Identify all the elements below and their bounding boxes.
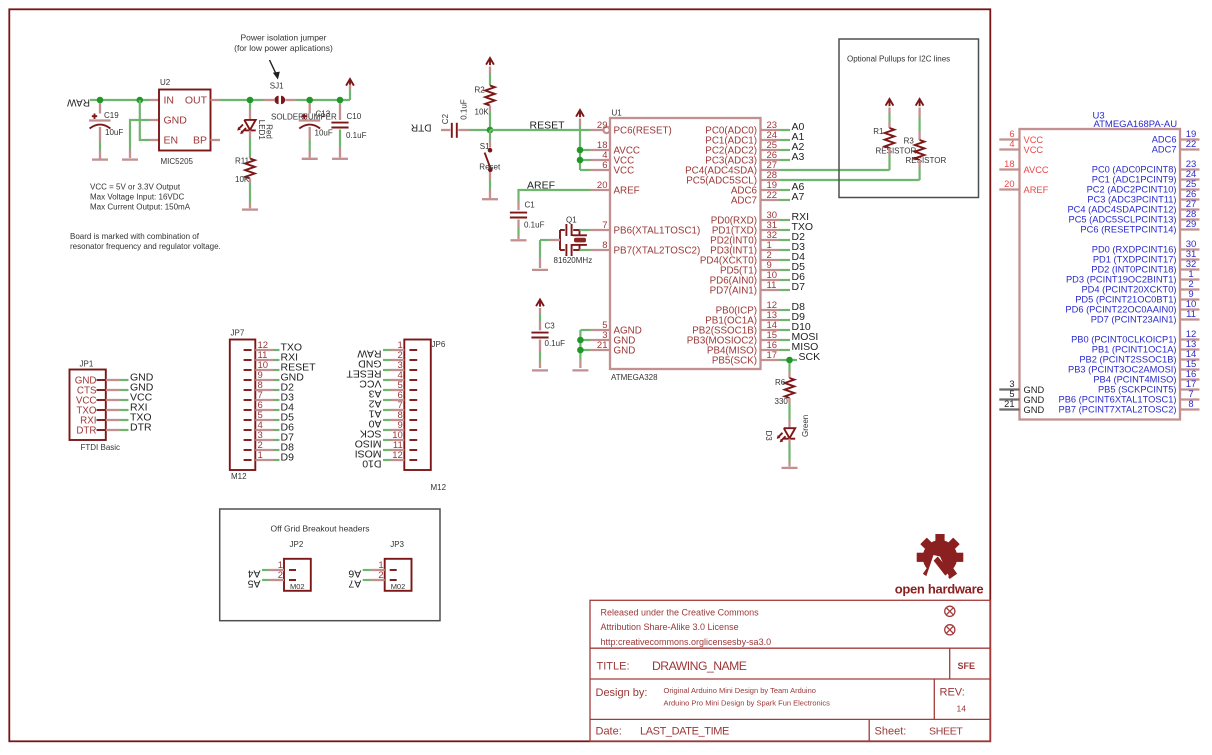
resistor R3 bbox=[915, 140, 925, 160]
solder jumper SJ1 bbox=[274, 96, 278, 104]
pin 7 PB6(XTAL1TOSC1) U1 bbox=[591, 229, 611, 231]
pin 31 PD1(TXD) U1 bbox=[761, 229, 780, 231]
pin 1 JP6 bbox=[409, 349, 417, 351]
svg-text:Sheet:: Sheet: bbox=[875, 726, 907, 738]
svg-text:SCK: SCK bbox=[799, 351, 821, 363]
switch S1 reset bbox=[489, 130, 491, 141]
pin 14 PB2(SSOC1B) U1 bbox=[761, 329, 780, 331]
svg-text:JP1: JP1 bbox=[80, 360, 94, 369]
ground under R11 bbox=[242, 208, 258, 210]
svg-text:VCC = 5V or 3.3V Output: VCC = 5V or 3.3V Output bbox=[90, 183, 181, 192]
svg-text:21: 21 bbox=[1004, 399, 1014, 409]
svg-text:R2: R2 bbox=[475, 86, 486, 95]
pin 25 PC2 (ADC2PCINT10) U3 bbox=[1180, 188, 1200, 190]
pin 32 PD2(INT0) U1 bbox=[761, 239, 780, 241]
svg-text:6: 6 bbox=[602, 160, 607, 171]
resistor R11 bbox=[245, 159, 255, 179]
pin 4 VCC U1 bbox=[591, 159, 611, 161]
pin 7 PB6 (PCINT6XTAL1TOSC1) U3 bbox=[1180, 398, 1200, 400]
junction at C13 bbox=[306, 97, 313, 104]
svg-text:PD1 (TXDPCINT17): PD1 (TXDPCINT17) bbox=[1093, 255, 1177, 265]
ground under C13 bbox=[302, 158, 318, 160]
svg-text:0.1uF: 0.1uF bbox=[524, 221, 545, 230]
svg-text:PD4 (PCINT20XCKT0): PD4 (PCINT20XCKT0) bbox=[1081, 285, 1176, 295]
pin EN U2 bbox=[150, 139, 160, 141]
pin 25 PC2(ADC2) U1 bbox=[761, 149, 780, 151]
svg-text:Green: Green bbox=[801, 415, 810, 437]
wire Q1 ground tap bbox=[550, 239, 561, 241]
pin 8 JP7 bbox=[244, 389, 252, 391]
junction VCC bbox=[577, 157, 584, 164]
pin 5 AGND U1 bbox=[591, 329, 611, 331]
svg-text:PD0 (RXDPCINT16): PD0 (RXDPCINT16) bbox=[1092, 245, 1177, 255]
svg-text:OUT: OUT bbox=[185, 95, 208, 107]
pin 7 wire XTAL1 bbox=[580, 229, 591, 231]
pin 27 PC4(ADC4SDA) U1 bbox=[761, 169, 780, 171]
pin 26 PC3(ADC3) U1 bbox=[761, 159, 780, 161]
icon circle-x 2 bbox=[945, 625, 955, 635]
svg-text:AVCC: AVCC bbox=[1024, 165, 1049, 175]
pin 9 JP7 bbox=[244, 379, 252, 381]
ground under S1 bbox=[482, 198, 498, 200]
supply VCC arrow at AVCC bbox=[576, 110, 584, 117]
svg-text:20: 20 bbox=[597, 180, 608, 191]
pin 9 PD5 (PCINT21OC0BT1) U3 bbox=[1180, 298, 1200, 300]
svg-text:ADC7: ADC7 bbox=[1152, 145, 1177, 155]
svg-text:JP3: JP3 bbox=[390, 540, 404, 549]
pin 1 JP7 bbox=[244, 459, 252, 461]
svg-text:Red: Red bbox=[264, 124, 273, 139]
svg-text:Q1: Q1 bbox=[566, 216, 577, 225]
svg-text:PB6(XTAL1TOSC1): PB6(XTAL1TOSC1) bbox=[614, 226, 701, 237]
pin 9 PD5(T1) U1 bbox=[761, 269, 780, 271]
svg-text:AREF: AREF bbox=[614, 186, 640, 197]
box off grid breakout bbox=[220, 509, 440, 621]
pin 11 PD7 (PCINT23AIN1) U3 bbox=[1180, 318, 1200, 320]
supply VCC arrow at R3 bbox=[916, 99, 924, 106]
svg-text:PC6(RESET): PC6(RESET) bbox=[614, 126, 672, 137]
pin 1 PD3(INT1) U1 bbox=[761, 249, 780, 251]
pin 20 AREF U1 bbox=[591, 189, 611, 191]
svg-text:SHEET: SHEET bbox=[929, 726, 963, 738]
svg-text:C19: C19 bbox=[104, 111, 119, 120]
pin 10 PD6 (PCINT22OC0AAIN0) U3 bbox=[1180, 308, 1200, 310]
pin 11 JP7 bbox=[244, 359, 252, 361]
resistor R1 bbox=[885, 128, 895, 148]
pin 2 JP7 bbox=[244, 449, 252, 451]
svg-text:D3: D3 bbox=[764, 431, 773, 442]
svg-text:14: 14 bbox=[957, 704, 967, 714]
svg-text:8: 8 bbox=[602, 240, 607, 251]
pin 17 PB5 (SCKPCINT5) U3 bbox=[1180, 388, 1200, 390]
svg-text:Reset: Reset bbox=[479, 163, 501, 172]
svg-text:D7: D7 bbox=[792, 281, 806, 293]
svg-text:LAST_DATE_TIME: LAST_DATE_TIME bbox=[640, 726, 729, 738]
svg-text:GND: GND bbox=[1024, 405, 1045, 415]
svg-text:TITLE:: TITLE: bbox=[597, 661, 630, 673]
pin 12 PB0 (PCINT0CLKOICP1) U3 bbox=[1180, 338, 1200, 340]
pin 16 PB4(MISO) U1 bbox=[761, 349, 780, 351]
connector JP7 M12 bbox=[230, 340, 256, 471]
svg-text:Off Grid Breakout headers: Off Grid Breakout headers bbox=[271, 524, 370, 534]
pin 27 PC4 (ADC4SDAPCINT12) U3 bbox=[1180, 208, 1200, 210]
svg-text:C1: C1 bbox=[525, 200, 536, 209]
svg-text:10K: 10K bbox=[475, 108, 490, 117]
svg-text:20: 20 bbox=[1004, 179, 1014, 189]
junction at C10 bbox=[337, 97, 344, 104]
svg-text:DTR: DTR bbox=[76, 426, 96, 437]
junction at LED1 bbox=[247, 97, 254, 104]
svg-text:C3: C3 bbox=[545, 322, 556, 331]
svg-text:Max Current Output: 150mA: Max Current Output: 150mA bbox=[90, 203, 191, 212]
svg-text:Original Arduino Mini Design b: Original Arduino Mini Design by Team Ard… bbox=[664, 686, 816, 695]
pin 12 PB0(ICP) U1 bbox=[761, 309, 780, 311]
pin 3 GND U3 bbox=[999, 388, 1019, 390]
pin 28 PC5 (ADC5SCLPCINT13) U3 bbox=[1180, 218, 1200, 220]
supply VCC arrow at C10 bbox=[346, 79, 354, 86]
pin 5 GND U3 bbox=[999, 398, 1019, 400]
icon circle-x 1 bbox=[945, 606, 955, 616]
pin 15 PB3(MOSIOC2) U1 bbox=[761, 339, 780, 341]
svg-text:PB6 (PCINT6XTAL1TOSC1): PB6 (PCINT6XTAL1TOSC1) bbox=[1059, 395, 1177, 405]
svg-text:AREF: AREF bbox=[527, 180, 555, 192]
pin 19 ADC6 U1 bbox=[761, 189, 780, 191]
svg-text:S1: S1 bbox=[480, 142, 490, 151]
svg-text:10uF: 10uF bbox=[315, 129, 333, 138]
pin 4 VCC U3 bbox=[999, 148, 1019, 150]
svg-text:AREF: AREF bbox=[1024, 185, 1049, 195]
pin 18 AVCC U1 bbox=[591, 149, 611, 151]
junction at C19 bbox=[97, 97, 104, 104]
pin 4 JP7 bbox=[244, 429, 252, 431]
pin 2 JP6 bbox=[409, 359, 417, 361]
svg-text:PB2 (PCINT2SSOC1B): PB2 (PCINT2SSOC1B) bbox=[1079, 355, 1176, 365]
pin 21 GND U3 bbox=[999, 408, 1019, 410]
svg-text:R3: R3 bbox=[904, 137, 915, 146]
svg-text:JP2: JP2 bbox=[290, 540, 304, 549]
svg-text:0.1uF: 0.1uF bbox=[545, 339, 566, 348]
svg-text:DTR: DTR bbox=[130, 421, 152, 433]
pin 10 PD6(AIN0) U1 bbox=[761, 279, 780, 281]
svg-text:Arduino Pro Mini Design by Spa: Arduino Pro Mini Design by Spark Fun Ele… bbox=[664, 699, 831, 708]
svg-text:18: 18 bbox=[1004, 159, 1014, 169]
pin 18 AVCC U3 bbox=[999, 168, 1019, 170]
svg-text:22: 22 bbox=[767, 190, 778, 201]
svg-text:PC5 (ADC5SCLPCINT13): PC5 (ADC5SCLPCINT13) bbox=[1069, 215, 1177, 225]
ground under C3 bbox=[532, 369, 548, 371]
resistor R6 bbox=[788, 363, 790, 371]
pin 1 PD3 (PCINT19OC2BINT1) U3 bbox=[1180, 278, 1200, 280]
svg-text:ATMEGA168PA-AU: ATMEGA168PA-AU bbox=[1094, 119, 1178, 130]
svg-text:ADC7: ADC7 bbox=[731, 196, 757, 207]
svg-text:C2: C2 bbox=[441, 113, 450, 124]
svg-text:6: 6 bbox=[1009, 129, 1014, 139]
svg-text:A7: A7 bbox=[792, 191, 805, 203]
svg-text:M12: M12 bbox=[431, 483, 447, 492]
svg-text:http:creativecommons.orglicens: http:creativecommons.orglicensesby-sa3.0 bbox=[601, 637, 772, 647]
pin 1 JP2 bbox=[289, 569, 296, 571]
svg-text:VCC: VCC bbox=[1024, 145, 1044, 155]
svg-text:DTR: DTR bbox=[411, 122, 432, 133]
svg-text:ADC6: ADC6 bbox=[1152, 135, 1177, 145]
junction GND3 bbox=[577, 337, 584, 344]
pin 8 wire XTAL2 bbox=[580, 249, 591, 251]
svg-text:Released under the Creative Co: Released under the Creative Commons bbox=[601, 608, 760, 618]
svg-text:Max Voltage Input: 16VDC: Max Voltage Input: 16VDC bbox=[90, 193, 185, 202]
svg-text:29: 29 bbox=[597, 120, 608, 131]
IC U3 ATMEGA168PA-AU bbox=[1020, 129, 1181, 420]
svg-text:Attribution Share-Alike 3.0 Li: Attribution Share-Alike 3.0 License bbox=[601, 622, 739, 632]
svg-text:resonator frequency and regula: resonator frequency and regulator voltag… bbox=[70, 242, 221, 251]
pin 22 ADC7 U3 bbox=[1180, 148, 1200, 150]
svg-text:A7: A7 bbox=[348, 577, 361, 589]
ground under C19 bbox=[92, 158, 108, 160]
ground under C10 bbox=[332, 158, 348, 160]
svg-text:10K: 10K bbox=[235, 175, 250, 184]
svg-text:A5: A5 bbox=[247, 577, 260, 589]
svg-text:GND: GND bbox=[614, 346, 636, 357]
svg-text:JP6: JP6 bbox=[432, 340, 446, 349]
svg-text:PC4 (ADC4SDAPCINT12): PC4 (ADC4SDAPCINT12) bbox=[1067, 205, 1176, 215]
svg-text:A3: A3 bbox=[792, 151, 805, 163]
pin 29 PC6 (RESETPCINT14) U3 bbox=[1180, 228, 1200, 230]
junction SCK bbox=[786, 357, 793, 364]
wire SCK bbox=[780, 359, 798, 361]
svg-text:R11: R11 bbox=[235, 157, 250, 166]
svg-text:U2: U2 bbox=[160, 78, 171, 87]
box optional pullups bbox=[839, 39, 979, 198]
svg-text:11: 11 bbox=[767, 280, 777, 291]
svg-text:5: 5 bbox=[1009, 389, 1014, 399]
pin 24 PC1(ADC1) U1 bbox=[761, 139, 780, 141]
pin 26 PC3 (ADC3PCINT11) U3 bbox=[1180, 198, 1200, 200]
svg-text:M02: M02 bbox=[391, 582, 406, 591]
resistor R2 bbox=[485, 86, 495, 106]
pin 2 JP2 bbox=[289, 579, 296, 581]
pin SJ1 right bbox=[286, 99, 297, 101]
pin 8 JP6 bbox=[409, 419, 417, 421]
svg-text:PB7 (PCINT7XTAL2TOSC2): PB7 (PCINT7XTAL2TOSC2) bbox=[1059, 405, 1177, 415]
supply VCC arrow at R1 bbox=[886, 99, 894, 106]
pin 9 JP6 bbox=[409, 429, 417, 431]
connector JP1 FTDI bbox=[70, 370, 106, 441]
svg-text:PC6 (RESETPCINT14): PC6 (RESETPCINT14) bbox=[1080, 225, 1176, 235]
wire AGND GND bbox=[579, 330, 581, 359]
svg-text:PB7(XTAL2TOSC2): PB7(XTAL2TOSC2) bbox=[614, 246, 701, 257]
junction at EN branch bbox=[137, 97, 144, 104]
wire SDA to R1 bbox=[780, 169, 890, 171]
svg-text:(for low power aplications): (for low power aplications) bbox=[234, 43, 333, 53]
svg-text:8: 8 bbox=[1188, 399, 1193, 410]
svg-text:D10: D10 bbox=[362, 457, 381, 469]
svg-text:4: 4 bbox=[1009, 139, 1014, 149]
svg-text:ATMEGA328: ATMEGA328 bbox=[611, 373, 658, 382]
svg-text:PC3 (ADC3PCINT11): PC3 (ADC3PCINT11) bbox=[1087, 195, 1176, 205]
svg-text:17: 17 bbox=[767, 350, 778, 361]
IC U1 ATMEGA328 bbox=[610, 118, 761, 369]
ground under C1 bbox=[511, 239, 527, 241]
svg-text:PC1 (ADC1PCINT9): PC1 (ADC1PCINT9) bbox=[1092, 175, 1177, 185]
junction RESET bbox=[487, 127, 494, 134]
svg-text:DRAWING_NAME: DRAWING_NAME bbox=[652, 659, 747, 673]
svg-text:IN: IN bbox=[164, 95, 175, 107]
svg-text:3: 3 bbox=[1009, 379, 1014, 389]
svg-text:PD7 (PCINT23AIN1): PD7 (PCINT23AIN1) bbox=[1091, 315, 1177, 325]
pin 20 AREF U3 bbox=[999, 188, 1019, 190]
capacitor C1 bbox=[517, 202, 519, 210]
pin 8 PB7(XTAL2TOSC2) U1 bbox=[591, 249, 611, 251]
voltage regulator U2 MIC5205 bbox=[159, 90, 211, 151]
capacitor C2 bbox=[441, 129, 450, 131]
svg-text:U1: U1 bbox=[612, 109, 623, 118]
svg-text:0.1uF: 0.1uF bbox=[460, 99, 469, 120]
wire RESET bbox=[490, 129, 591, 131]
pin 6 VCC U3 bbox=[999, 138, 1019, 140]
pin 2 PD4(XCKT0) U1 bbox=[761, 259, 780, 261]
pin 14 PB2 (PCINT2SSOC1B) U3 bbox=[1180, 358, 1200, 360]
LED LED1 red bbox=[249, 103, 251, 110]
svg-text:PB1 (PCINT1OC1A): PB1 (PCINT1OC1A) bbox=[1092, 345, 1177, 355]
pin 1 JP3 bbox=[390, 569, 397, 571]
svg-text:PD6 (PCINT22OC0AAIN0): PD6 (PCINT22OC0AAIN0) bbox=[1065, 305, 1176, 315]
svg-text:11: 11 bbox=[1186, 309, 1196, 320]
svg-text:GND: GND bbox=[164, 115, 188, 127]
svg-text:SJ1: SJ1 bbox=[270, 82, 284, 91]
svg-text:SFE: SFE bbox=[958, 661, 976, 671]
resonator Q1 bbox=[559, 230, 561, 250]
svg-text:C10: C10 bbox=[347, 112, 362, 121]
svg-text:GND: GND bbox=[1024, 385, 1045, 395]
pin 21 GND U1 bbox=[591, 349, 611, 351]
pin GND U2 bbox=[150, 119, 160, 121]
pin 3 GND U1 bbox=[591, 339, 611, 341]
capacitor C19 bbox=[99, 103, 101, 114]
pin 16 PB4 (PCINT4MISO) U3 bbox=[1180, 378, 1200, 380]
svg-text:Date:: Date: bbox=[596, 726, 622, 738]
capacitor C10 bbox=[339, 103, 341, 120]
LED D3 green bbox=[784, 428, 795, 438]
ground under U2 GND bbox=[122, 158, 138, 160]
svg-text:29: 29 bbox=[1186, 219, 1197, 230]
ground under Q1 bbox=[532, 269, 548, 271]
pin 22 ADC7 U1 bbox=[761, 199, 780, 201]
svg-text:R6: R6 bbox=[775, 378, 786, 387]
pin 23 PC0 (ADC0PCINT8) U3 bbox=[1180, 168, 1200, 170]
svg-text:RESET: RESET bbox=[530, 120, 566, 132]
pin 11 PD7(AIN1) U1 bbox=[761, 289, 780, 291]
svg-text:RAW: RAW bbox=[66, 97, 90, 108]
wire VCC rail bbox=[220, 99, 264, 101]
pin 7 JP6 bbox=[409, 409, 417, 411]
pin BP U2 bbox=[211, 139, 221, 141]
svg-text:Power isolation jumper: Power isolation jumper bbox=[241, 33, 327, 43]
annotation arrow to SJ1 bbox=[270, 60, 278, 77]
junction AVCC bbox=[577, 147, 584, 154]
pin 8 PB7 (PCINT7XTAL2TOSC2) U3 bbox=[1180, 408, 1200, 410]
pin OUT U2 bbox=[211, 99, 221, 101]
pin 6 VCC U1 bbox=[591, 169, 611, 171]
svg-text:22: 22 bbox=[1186, 139, 1197, 150]
capacitor C3 bbox=[531, 332, 548, 334]
svg-text:M02: M02 bbox=[290, 582, 305, 591]
pin 15 PB3 (PCINT3OC2AMOSI) U3 bbox=[1180, 368, 1200, 370]
svg-text:Design by:: Design by: bbox=[596, 687, 648, 699]
svg-text:PD5 (PCINT21OC0BT1): PD5 (PCINT21OC0BT1) bbox=[1075, 295, 1176, 305]
pin IN U2 bbox=[150, 99, 159, 101]
supply VCC arrow at C3 bbox=[536, 300, 544, 307]
svg-text:RESISTOR: RESISTOR bbox=[876, 147, 917, 156]
pin 23 PC0(ADC0) U1 bbox=[761, 129, 780, 131]
pin 10 JP6 bbox=[409, 439, 417, 441]
svg-text:PB5(SCK): PB5(SCK) bbox=[712, 356, 757, 367]
svg-text:VCC: VCC bbox=[614, 166, 635, 177]
capacitor C13 bbox=[309, 103, 311, 114]
pin 4 JP6 bbox=[409, 379, 417, 381]
svg-text:7: 7 bbox=[602, 220, 607, 231]
svg-text:BP: BP bbox=[193, 135, 207, 147]
wire AVCC VCC bbox=[579, 126, 581, 170]
wire RAW rail bbox=[90, 99, 151, 101]
pin 31 PD1 (TXDPCINT17) U3 bbox=[1180, 258, 1200, 260]
pin 6 JP7 bbox=[244, 409, 252, 411]
svg-text:REV:: REV: bbox=[940, 687, 965, 699]
svg-text:PB3 (PCINT3OC2AMOSI): PB3 (PCINT3OC2AMOSI) bbox=[1068, 365, 1177, 375]
pin 5 JP6 bbox=[409, 389, 417, 391]
svg-text:21: 21 bbox=[597, 340, 608, 351]
pin 10 JP7 bbox=[244, 369, 252, 371]
pin 13 PB1 (PCINT1OC1A) U3 bbox=[1180, 348, 1200, 350]
pin SJ1 left bbox=[264, 99, 274, 101]
svg-text:EN: EN bbox=[164, 135, 179, 147]
svg-text:GND: GND bbox=[1024, 395, 1045, 405]
pin 29 PC6(RESET) U1 bbox=[591, 129, 604, 131]
pin 17 PB5(SCK) U1 bbox=[761, 359, 780, 361]
wire GND pin U2 bbox=[130, 120, 150, 150]
svg-text:D9: D9 bbox=[281, 451, 295, 463]
svg-text:R1: R1 bbox=[873, 127, 884, 136]
svg-text:10uF: 10uF bbox=[105, 128, 123, 137]
svg-text:PC0 (ADC0PCINT8): PC0 (ADC0PCINT8) bbox=[1092, 165, 1177, 175]
svg-text:RESISTOR: RESISTOR bbox=[906, 156, 947, 165]
wire SCL to R3 bbox=[780, 179, 920, 181]
pin 7 JP7 bbox=[244, 399, 252, 401]
pin 5 JP7 bbox=[244, 419, 252, 421]
ground under U1 bbox=[572, 369, 588, 371]
svg-text:MIC5205: MIC5205 bbox=[161, 157, 194, 166]
svg-text:PD2 (INT0PCINT18): PD2 (INT0PCINT18) bbox=[1091, 265, 1176, 275]
supply VCC arrow at R2 bbox=[486, 58, 494, 65]
pin 30 PD0(RXD) U1 bbox=[761, 219, 780, 221]
ground under D3 bbox=[782, 467, 798, 469]
pin 32 PD2 (INT0PCINT18) U3 bbox=[1180, 268, 1200, 270]
logo open source hardware gear bbox=[917, 534, 964, 579]
svg-text:Optional Pullups for I2C lines: Optional Pullups for I2C lines bbox=[847, 55, 950, 64]
svg-text:PB0 (PCINT0CLKOICP1): PB0 (PCINT0CLKOICP1) bbox=[1071, 335, 1176, 345]
wire AREF bbox=[519, 190, 591, 202]
pin 11 JP6 bbox=[409, 449, 417, 451]
pin 3 JP7 bbox=[244, 439, 252, 441]
title block bbox=[590, 600, 990, 741]
svg-text:81620MHz: 81620MHz bbox=[554, 256, 593, 265]
pin 13 PB1(OC1A) U1 bbox=[761, 319, 780, 321]
svg-text:0.1uF: 0.1uF bbox=[346, 131, 367, 140]
junction GND21 bbox=[577, 347, 584, 354]
svg-text:PB4 (PCINT4MISO): PB4 (PCINT4MISO) bbox=[1093, 375, 1176, 385]
svg-text:Board is marked with combinati: Board is marked with combination of bbox=[70, 232, 200, 241]
svg-text:PC2 (ADC2PCINT10): PC2 (ADC2PCINT10) bbox=[1087, 185, 1177, 195]
svg-text:M12: M12 bbox=[231, 472, 247, 481]
svg-text:PD3 (PCINT19OC2BINT1): PD3 (PCINT19OC2BINT1) bbox=[1066, 275, 1177, 285]
